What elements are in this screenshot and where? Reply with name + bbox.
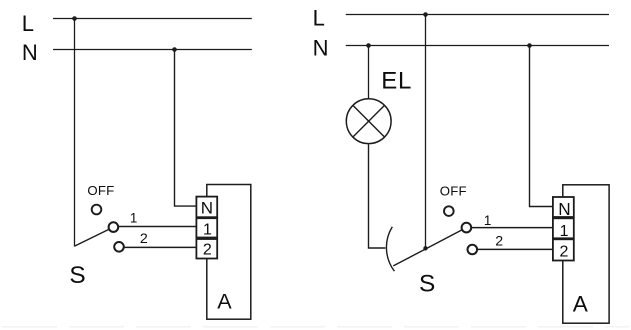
wire N drop to terminal N [175, 50, 197, 207]
switch S contact 2 [468, 245, 478, 255]
switch S contact 1 [109, 222, 119, 232]
wire L bus [53, 18, 252, 20]
switch S contact 1 [462, 223, 472, 233]
terminal N cell [196, 197, 217, 218]
terminal 1 cell [553, 218, 574, 238]
svg-text:L: L [313, 5, 325, 30]
faint bottom watermark line [2, 326, 629, 328]
svg-text:2: 2 [203, 242, 212, 259]
wire lamp to switch arc [369, 144, 386, 248]
wire N drop to terminal N [530, 46, 553, 207]
svg-text:1: 1 [203, 222, 212, 239]
switch S lever [393, 230, 462, 266]
device A box [207, 185, 251, 320]
wire N to lamp [368, 46, 370, 99]
switch S contact 2 [114, 242, 124, 252]
terminal 2 cell [196, 239, 217, 259]
svg-text:L: L [22, 11, 34, 36]
junction on N [172, 47, 177, 52]
wire contact1 to terminal 1 [119, 226, 196, 228]
switch S lever [74, 229, 109, 246]
svg-text:1: 1 [560, 223, 569, 240]
svg-text:2: 2 [140, 231, 148, 247]
svg-text:1: 1 [484, 213, 491, 228]
svg-text:1: 1 [130, 211, 137, 226]
lamp EL [346, 99, 391, 144]
wire contact2 to terminal 2 [478, 248, 553, 250]
svg-text:N: N [201, 199, 213, 218]
wire N bus [53, 49, 252, 51]
terminal 1 cell [196, 218, 217, 237]
terminal 2 cell [553, 239, 574, 260]
wire N bus [346, 45, 609, 47]
wire contact1 to terminal 1 [472, 227, 553, 229]
svg-text:2: 2 [560, 243, 569, 260]
svg-text:N: N [558, 199, 570, 219]
junction on N (lamp drop) [366, 43, 371, 48]
svg-text:N: N [22, 40, 38, 65]
junction on L [423, 12, 428, 17]
wire L bus [346, 14, 609, 16]
wire L drop to lever [425, 15, 427, 249]
device A box [563, 185, 609, 323]
switch S off-contact [444, 206, 454, 216]
lever junction dot [423, 246, 427, 250]
svg-text:OFF: OFF [87, 183, 114, 198]
svg-text:S: S [69, 262, 85, 289]
junction on N (terminal drop) [527, 43, 532, 48]
wire L drop to switch [74, 19, 76, 247]
svg-text:OFF: OFF [440, 184, 467, 199]
junction on L [72, 16, 77, 21]
svg-text:2: 2 [495, 234, 503, 250]
switch blade sweep arc [386, 227, 394, 272]
wire contact2 to terminal 2 [125, 246, 197, 248]
switch S off-contact [92, 205, 102, 215]
terminal N cell [553, 197, 574, 217]
svg-text:A: A [217, 288, 232, 313]
svg-text:EL: EL [381, 68, 412, 95]
svg-text:S: S [419, 270, 435, 297]
svg-text:N: N [313, 35, 329, 60]
svg-text:A: A [573, 292, 589, 317]
